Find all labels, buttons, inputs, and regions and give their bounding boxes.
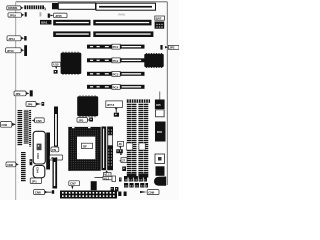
svg-text:CN2: CN2	[1, 123, 7, 127]
callout H	[26, 102, 41, 107]
white box below	[156, 110, 165, 117]
outlined connector L	[33, 166, 45, 178]
leader line above kb bios	[159, 92, 161, 100]
SIMM socket 2	[132, 103, 137, 174]
CPU socket	[69, 127, 100, 170]
small callout below	[119, 158, 127, 163]
SIMM socket 3	[138, 103, 143, 174]
svg-text:JP3: JP3	[78, 118, 83, 122]
svg-text:CN7: CN7	[70, 182, 76, 186]
cache chip row1 c	[129, 176, 133, 182]
svg-text:CN6: CN6	[7, 163, 13, 167]
svg-text:CN3: CN3	[36, 153, 40, 159]
socketed chip white box	[155, 154, 165, 164]
ISA slot 1 label box	[40, 20, 52, 25]
jumper below U2 callout	[54, 70, 58, 74]
ISA slot 2 right segment	[93, 31, 153, 37]
svg-text:BAT: BAT	[156, 16, 162, 20]
small mark right of keyboard connector	[44, 7, 46, 10]
svg-text:PC3: PC3	[113, 72, 119, 76]
callout JP15 pointing left	[50, 13, 67, 18]
gray jumper mid	[40, 12, 42, 16]
small jumper at bar bottom	[52, 190, 54, 194]
keyboard connector callout KBMS	[7, 6, 24, 10]
connector b tall bar	[24, 45, 27, 56]
svg-text:VL2: VL2	[104, 176, 110, 180]
jumper near right edge	[160, 45, 162, 50]
power connector top bar A black cap	[52, 3, 58, 9]
short slot 3	[87, 71, 145, 76]
jumper below it	[116, 149, 123, 155]
SIMM socket 1	[127, 103, 132, 174]
vertical outlined header bar mid	[54, 107, 58, 147]
callout outside right edge	[165, 45, 179, 49]
svg-text:CN4: CN4	[35, 167, 39, 173]
cache chip row2 a	[124, 183, 128, 188]
cache chip row1 d	[134, 176, 138, 182]
chip U3 big mid	[77, 95, 98, 117]
cache chip row2 c	[135, 183, 139, 188]
jumper below	[114, 113, 119, 117]
callout C left column	[14, 91, 29, 96]
jumper block right	[48, 14, 50, 18]
black box3 right column	[156, 166, 165, 176]
short slot 2	[87, 58, 145, 63]
black component with notch	[154, 177, 166, 186]
svg-text:PC4: PC4	[113, 85, 119, 89]
callouts above socket left	[51, 147, 59, 152]
svg-text:CN9: CN9	[148, 191, 154, 195]
jumper h	[42, 102, 45, 106]
SIMM socket 4	[144, 103, 149, 174]
top bar B connector	[96, 3, 156, 10]
battery connector block	[155, 22, 165, 29]
keyboard BIOS black box	[155, 100, 165, 110]
VLB slot bar 1	[101, 127, 106, 171]
battery callout top right	[155, 16, 165, 20]
svg-text:JP9: JP9	[15, 92, 20, 96]
keyboard DIN connector	[24, 5, 44, 9]
svg-text:JP2: JP2	[169, 46, 174, 50]
SIMM sockets top cap band	[127, 99, 150, 102]
chipset chip U1 top right	[144, 53, 163, 68]
SIMM label box 2	[139, 143, 145, 150]
callout B left column	[6, 48, 24, 53]
svg-text:JP6: JP6	[27, 102, 32, 106]
rounded outlined connector K	[33, 131, 45, 164]
svg-text:J6: J6	[118, 142, 122, 146]
jumper c	[30, 90, 33, 96]
power header striped bar 1	[18, 110, 23, 146]
cache chip row1 e	[139, 176, 143, 182]
cache chip row1 b	[124, 176, 128, 182]
svg-text:JP13: JP13	[7, 49, 14, 53]
jumper below J7 callout	[122, 167, 126, 172]
BIOS ROM tall black box	[155, 122, 166, 142]
VLB slot bar 2 with label	[107, 127, 113, 171]
SIMM label box 1	[127, 143, 133, 150]
callout M	[6, 162, 19, 167]
top bar B inner stripe	[99, 6, 152, 8]
small chips left of header end	[111, 187, 114, 192]
svg-text:JP19: JP19	[9, 13, 16, 17]
jumper a	[24, 36, 26, 40]
svg-text:PC2: PC2	[113, 59, 119, 63]
striped vertical bar 3	[21, 152, 26, 182]
ISA slot 2 left segment	[53, 31, 90, 37]
svg-text:ZIF: ZIF	[83, 144, 87, 148]
chip U2 mid left	[61, 52, 82, 75]
callout A left column	[7, 36, 24, 41]
svg-text:KB/MS: KB/MS	[8, 6, 17, 10]
stacked callouts below VLB	[95, 170, 113, 180]
callout bottom right	[140, 190, 159, 195]
svg-text:BIO: BIO	[157, 130, 163, 134]
short slot 4	[87, 84, 145, 89]
jumper block left	[25, 12, 27, 16]
CPU socket label box	[82, 143, 93, 148]
svg-text:JP7 8: JP7 8	[107, 103, 115, 107]
thin striped header bar 3	[29, 110, 31, 147]
bottom pin header	[60, 191, 117, 199]
callout E	[34, 190, 52, 195]
callout N JP1	[30, 178, 42, 184]
short slot 1	[87, 44, 145, 49]
black square above header right	[91, 181, 97, 190]
callout between slots and SIMM	[118, 141, 124, 149]
callout F above header	[69, 181, 80, 190]
svg-text:CN8: CN8	[35, 191, 41, 195]
board outline left edge	[15, 2, 17, 200]
svg-text:JP14: JP14	[8, 37, 15, 41]
cache chip row1 a	[119, 178, 122, 182]
callout with down arrow mid right	[106, 101, 123, 113]
small jumper left of connector L	[30, 159, 33, 165]
ISA slot 1 left segment	[53, 20, 90, 26]
svg-text:J7: J7	[122, 159, 126, 163]
jumper right of callout	[89, 118, 93, 122]
cache chip row2 d	[140, 183, 144, 188]
power header striped bar 2	[24, 110, 29, 144]
cache chip row2 b	[129, 183, 133, 188]
cache SRAM white box row1	[112, 176, 116, 182]
jumper row callout JP	[8, 13, 24, 18]
svg-text:U15: U15	[53, 63, 59, 67]
svg-text:CN5: CN5	[36, 119, 42, 123]
faint line under socket	[70, 170, 100, 172]
power connector top bar A	[58, 3, 95, 9]
svg-text:JP1: JP1	[32, 179, 37, 183]
cache chip row2 e	[145, 183, 148, 188]
board outline right edge	[166, 2, 168, 185]
callout J pointing left	[32, 118, 45, 123]
small squares right of header	[118, 192, 121, 197]
svg-text:ISA1: ISA1	[41, 21, 48, 25]
cache chip row1 f	[144, 176, 147, 182]
black vertical bar next to K	[46, 133, 50, 170]
callout U2 label	[52, 62, 61, 69]
thick vertical bar below callouts	[53, 158, 58, 189]
ISA slot 1 right segment	[93, 20, 151, 26]
board outline top edge	[16, 1, 168, 3]
svg-text:(RAM): (RAM)	[118, 12, 125, 16]
callout below U3	[77, 118, 89, 123]
svg-text:PC1: PC1	[113, 45, 119, 49]
callout CN I	[0, 122, 16, 128]
svg-text:JP15: JP15	[55, 14, 62, 18]
SIMM bottom caps	[127, 174, 137, 178]
